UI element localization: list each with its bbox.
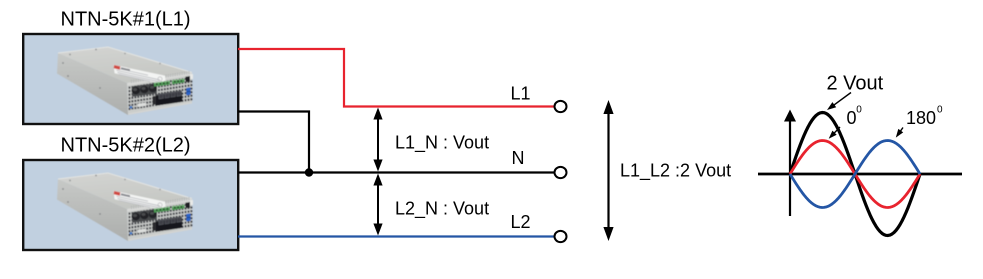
svg-text:NTN-5K#2(L2): NTN-5K#2(L2): [61, 135, 191, 157]
junction node: [305, 168, 313, 176]
wire red L1: [238, 49, 555, 107]
svg-text:NTN-5K#1(L1): NTN-5K#1(L1): [61, 9, 191, 31]
svg-text:0: 0: [937, 105, 943, 116]
waveform vertical axis: [789, 120, 791, 216]
PSU photo 1: [57, 47, 193, 115]
PSU photo 2: [57, 173, 193, 241]
wire black N: [238, 171, 555, 173]
svg-text:L1_L2 :2 Vout: L1_L2 :2 Vout: [620, 161, 731, 182]
terminal L1: [555, 101, 567, 112]
terminal N: [555, 167, 567, 178]
svg-text:L1: L1: [511, 84, 531, 104]
black sine 2Vout: [790, 113, 920, 236]
arrow L1-L2: [603, 100, 613, 241]
box PSU1: [23, 34, 238, 124]
svg-text:180: 180: [906, 108, 936, 128]
svg-text:N: N: [512, 148, 525, 168]
arrow L1-N: [373, 108, 382, 172]
svg-text:L1_N : Vout: L1_N : Vout: [395, 133, 489, 154]
arrow N-L2: [373, 174, 382, 236]
leader arrow 2Vout: [833, 93, 851, 106]
box PSU2: [23, 160, 238, 250]
blue sine 180deg: [790, 141, 920, 208]
terminal L2: [555, 231, 567, 242]
waveform horizontal axis: [758, 173, 962, 176]
leader arrow 180deg: [900, 128, 903, 133]
svg-text:0: 0: [856, 105, 862, 116]
vertical axis arrowhead: [784, 110, 796, 122]
leader arrow 0deg: [833, 127, 840, 134]
wire blue L2: [238, 235, 555, 237]
svg-text:L2: L2: [511, 212, 531, 232]
svg-text:0: 0: [847, 108, 857, 128]
svg-text:L2_N : Vout: L2_N : Vout: [395, 199, 489, 220]
red sine 0deg: [790, 141, 920, 208]
wire black from PSU1: [238, 112, 309, 172]
svg-text:2 Vout: 2 Vout: [827, 73, 884, 95]
